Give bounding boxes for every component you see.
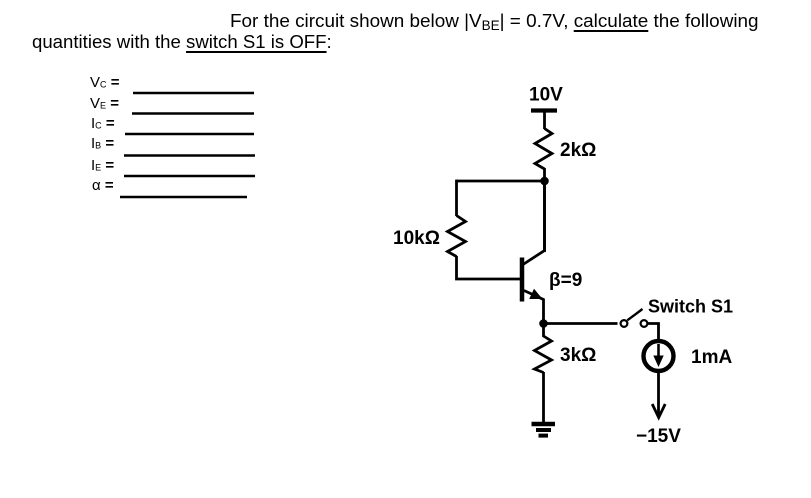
svg-text:2kΩ: 2kΩ [560,140,596,161]
switch S1 right contact [641,320,648,327]
problem statement line 1 [230,12,759,36]
svg-text:3kΩ: 3kΩ [560,345,596,366]
10V supply bar [531,108,557,112]
10V supply label [529,85,563,106]
-15V label [636,426,681,447]
svg-text:10kΩ: 10kΩ [393,228,440,249]
svg-text:β=9: β=9 [549,270,582,291]
transistor Q1 beta label [549,270,582,291]
resistor R3 value 3k [560,345,596,366]
answer blank line 2 [132,112,254,114]
transistor Q1 emitter lead [524,291,544,325]
answer label Vc [90,73,119,95]
answer blank line 6 [120,196,247,198]
answer label alpha [92,176,114,196]
node junction dot collector-top [540,177,549,186]
resistor R2 10k zigzag [448,216,466,257]
ground bar 2 [536,428,551,432]
current source I1 value 1mA [691,347,732,368]
answer blank line 3 [125,133,254,135]
transistor Q1 base bar [520,258,525,302]
wire R3 to ground [542,372,545,423]
transistor Q1 emitter arrow [529,289,542,299]
resistor R1 2k zigzag [535,129,552,170]
wire R2 to base corner [457,256,521,279]
resistor R2 value 10k [393,228,440,249]
wire supply to R1 [543,111,546,130]
wire node to left branch [457,180,545,183]
answer label Ie [91,156,114,178]
node junction dot emitter [539,319,548,328]
wire emitter node to switch [544,322,618,325]
current source I1 arrow head [653,356,663,368]
wire current source to -15V [657,371,660,417]
transistor Q1 collector lead [523,185,545,265]
wire switch to current source [648,324,659,342]
svg-text:Switch S1: Switch S1 [648,296,733,316]
answer label Ib [91,134,114,156]
switch S1 label [648,296,733,316]
ground bar 3 [539,434,549,438]
svg-text:10V: 10V [529,85,563,106]
current source I1 arrow stem [657,344,660,359]
switch S1 lever [627,309,642,320]
wire left branch down to R2 [455,180,458,216]
ground bar 1 [532,422,556,426]
wire R1 to collector node [543,168,546,252]
svg-text:1mA: 1mA [691,347,732,368]
-15V arrow head [652,404,665,418]
problem statement line 2 [32,32,332,52]
resistor R3 3k zigzag [535,324,552,373]
answer blank line 5 [124,175,255,177]
current source I1 circle [644,341,674,371]
answer blank line 4 [124,154,255,156]
svg-text:−15V: −15V [636,426,681,447]
resistor R1 value 2k [560,140,596,161]
answer label Ve [90,94,119,116]
answer blank line 1 [133,92,254,94]
switch S1 left contact [621,320,628,327]
answer label Ic [91,114,115,136]
